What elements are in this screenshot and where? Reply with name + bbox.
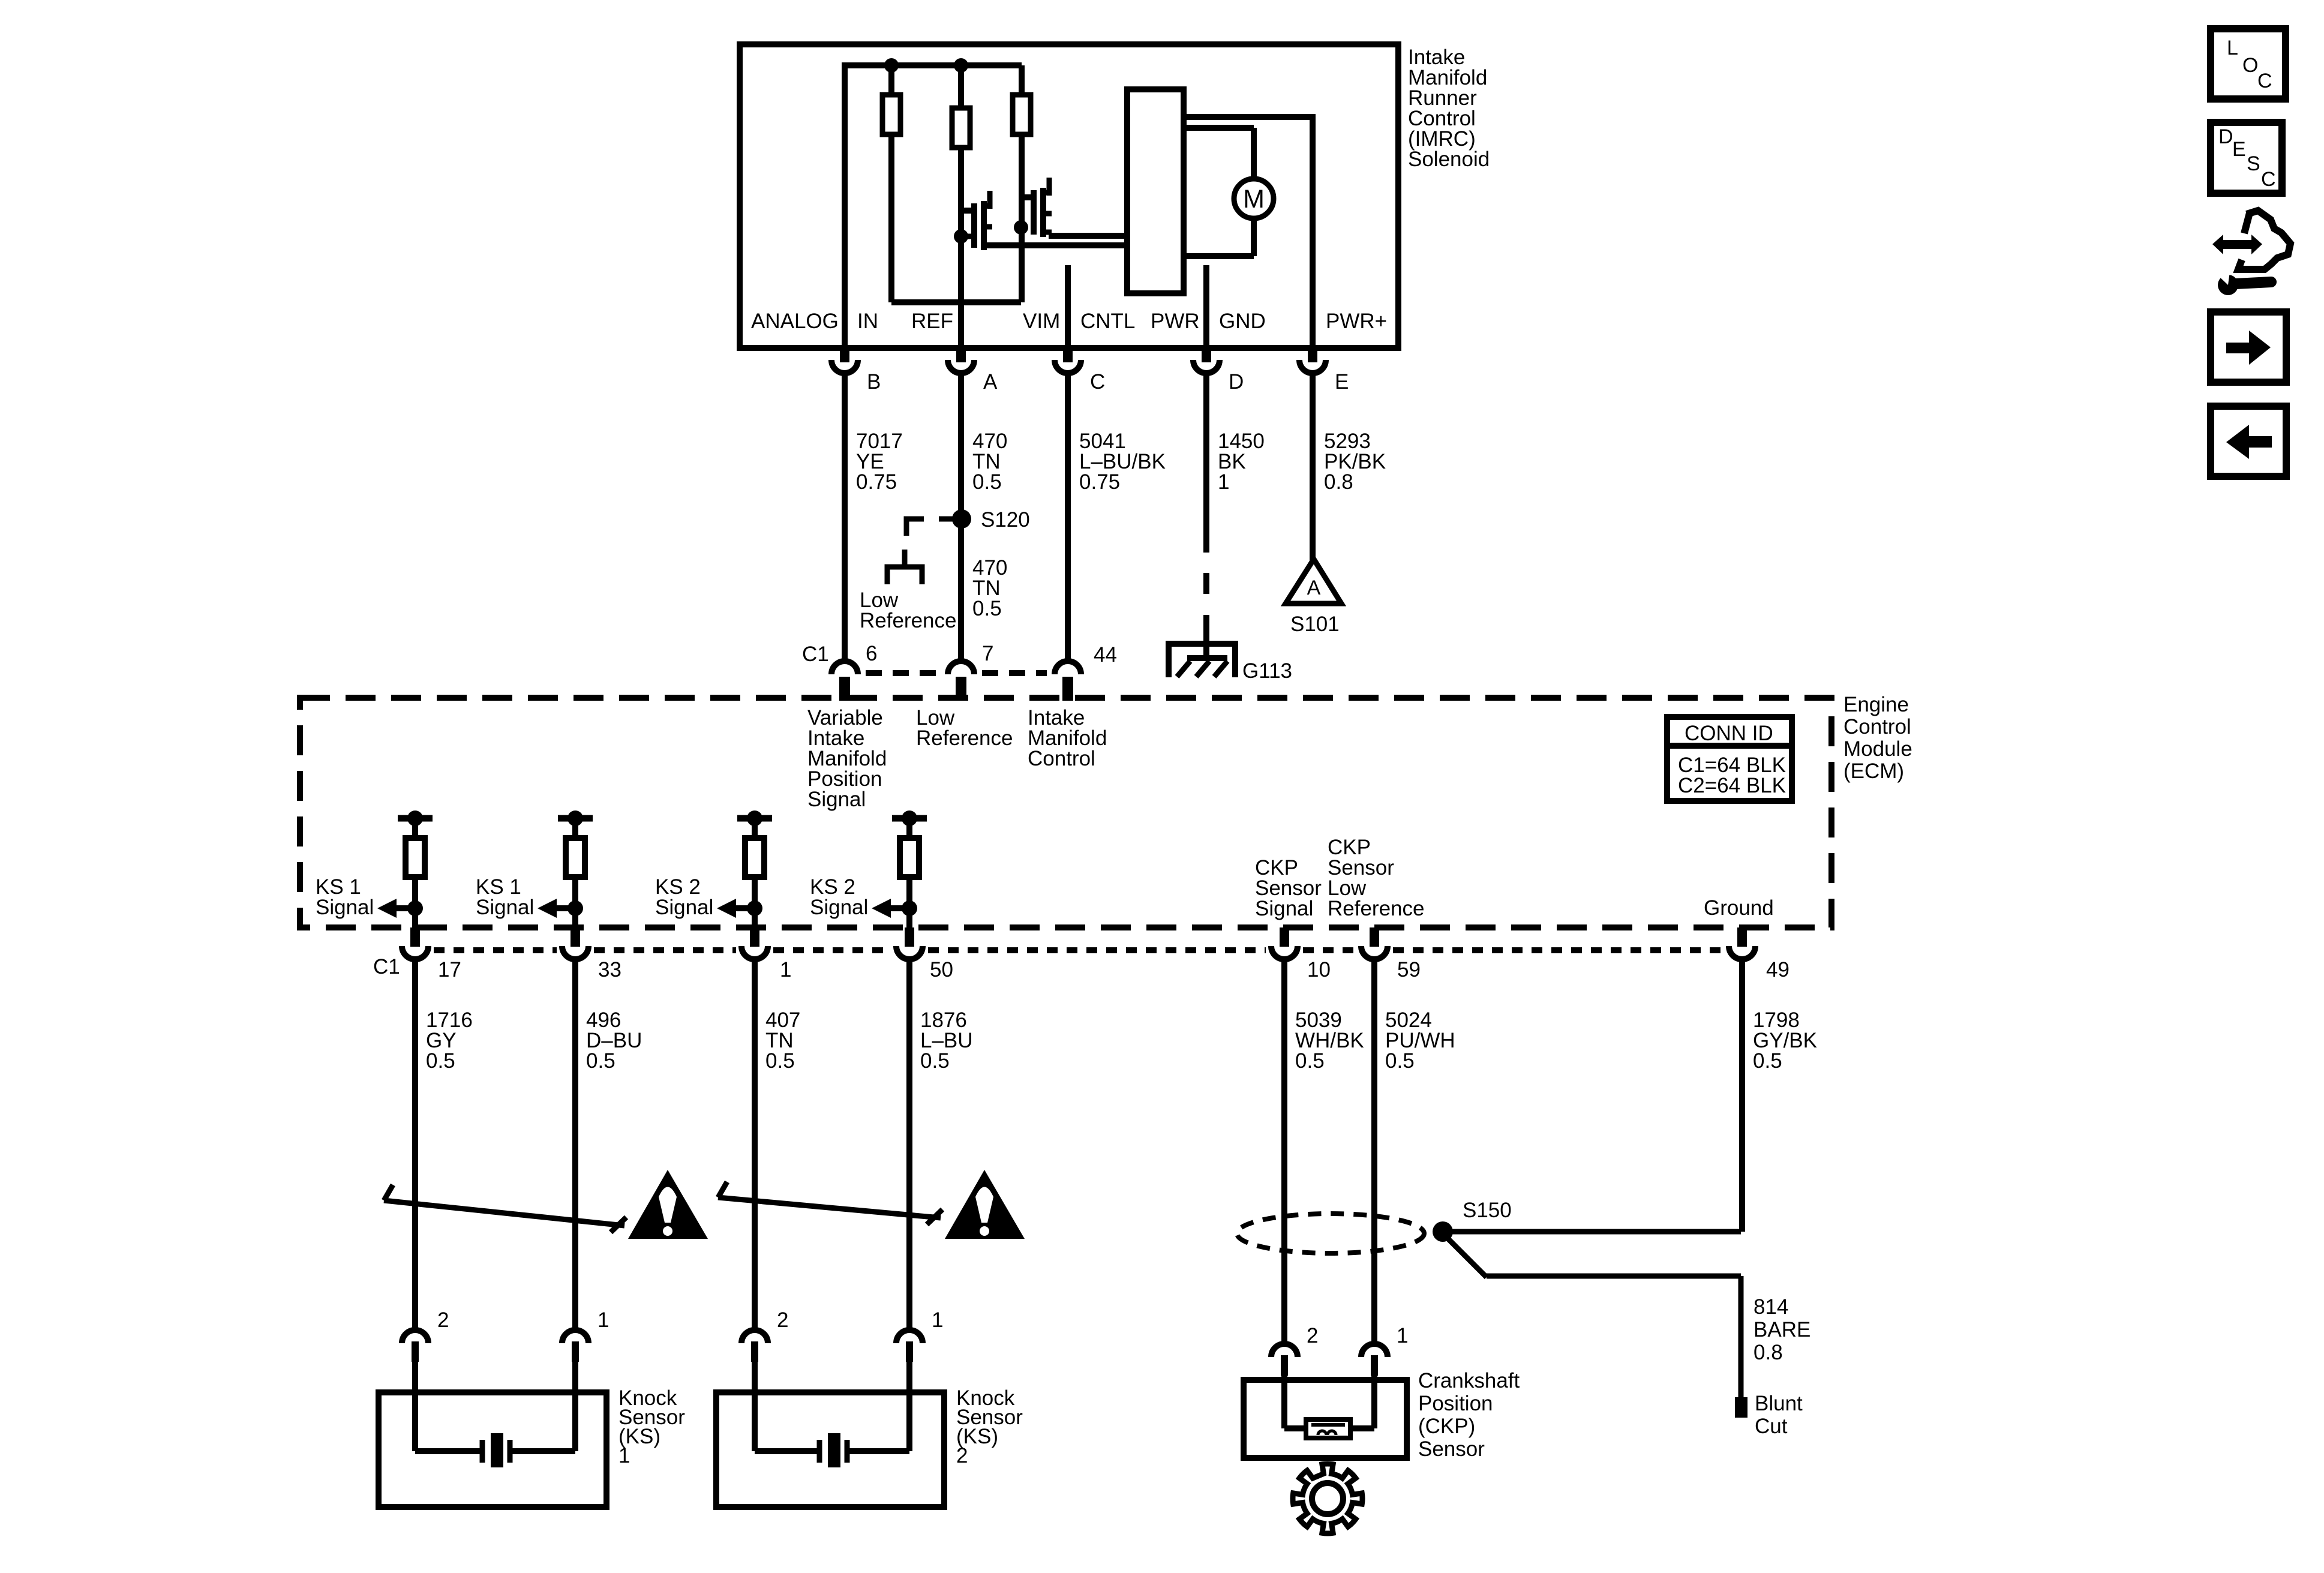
svg-text:50: 50 <box>930 958 953 981</box>
svg-text:814: 814 <box>1753 1295 1788 1319</box>
svg-text:2: 2 <box>1307 1324 1318 1347</box>
svg-text:Crankshaft: Crankshaft <box>1418 1369 1520 1392</box>
svg-text:Engine: Engine <box>1843 693 1909 716</box>
svg-text:C2=64 BLK: C2=64 BLK <box>1678 774 1786 797</box>
svg-text:49: 49 <box>1766 958 1789 981</box>
svg-text:7: 7 <box>982 642 993 665</box>
svg-text:Ground: Ground <box>1704 896 1774 920</box>
svg-text:0.5: 0.5 <box>920 1049 950 1073</box>
svg-text:Signal: Signal <box>810 896 868 919</box>
svg-text:Module: Module <box>1843 737 1912 761</box>
svg-text:2: 2 <box>956 1444 968 1467</box>
svg-text:O: O <box>2242 54 2258 77</box>
svg-text:0.5: 0.5 <box>972 597 1002 620</box>
svg-text:S: S <box>2247 152 2260 175</box>
svg-text:C1: C1 <box>373 955 400 978</box>
svg-text:33: 33 <box>598 958 621 981</box>
svg-text:(CKP): (CKP) <box>1418 1415 1475 1438</box>
svg-text:C: C <box>2257 70 2272 92</box>
svg-text:1: 1 <box>932 1308 943 1332</box>
svg-text:C: C <box>1090 370 1105 394</box>
svg-text:0.8: 0.8 <box>1324 470 1353 494</box>
svg-text:2: 2 <box>437 1308 449 1332</box>
svg-text:Solenoid: Solenoid <box>1408 148 1490 171</box>
svg-text:Signal: Signal <box>316 896 374 919</box>
svg-text:Blunt: Blunt <box>1755 1392 1803 1415</box>
svg-text:Reference: Reference <box>860 609 956 632</box>
svg-text:Sensor: Sensor <box>1418 1437 1485 1461</box>
svg-text:S101: S101 <box>1290 613 1340 636</box>
svg-text:L: L <box>2227 37 2238 59</box>
svg-text:10: 10 <box>1307 958 1331 981</box>
svg-text:ANALOG: ANALOG <box>751 310 839 333</box>
svg-text:0.8: 0.8 <box>1753 1341 1783 1364</box>
svg-text:PWR+: PWR+ <box>1326 310 1387 333</box>
svg-text:M: M <box>1243 185 1265 214</box>
svg-text:B: B <box>867 370 881 394</box>
svg-text:0.75: 0.75 <box>1079 470 1120 494</box>
svg-text:CONN ID: CONN ID <box>1685 722 1773 745</box>
svg-text:S120: S120 <box>981 508 1030 532</box>
svg-text:E: E <box>2232 138 2246 161</box>
svg-text:D: D <box>2218 125 2233 148</box>
svg-text:VIM: VIM <box>1023 310 1060 333</box>
svg-text:C: C <box>2261 168 2276 191</box>
svg-text:0.5: 0.5 <box>426 1049 455 1073</box>
svg-text:E: E <box>1335 370 1349 394</box>
svg-text:A: A <box>983 370 998 394</box>
svg-text:0.5: 0.5 <box>586 1049 615 1073</box>
svg-text:PWR: PWR <box>1151 310 1200 333</box>
svg-text:CNTL: CNTL <box>1080 310 1135 333</box>
svg-text:IN: IN <box>857 310 878 333</box>
svg-text:0.75: 0.75 <box>856 470 897 494</box>
svg-text:Reference: Reference <box>1328 897 1424 920</box>
svg-text:REF: REF <box>911 310 953 333</box>
svg-text:1: 1 <box>618 1444 630 1467</box>
svg-text:Cut: Cut <box>1755 1415 1788 1438</box>
svg-text:Signal: Signal <box>1255 897 1313 920</box>
svg-text:Signal: Signal <box>476 896 534 919</box>
svg-text:0.5: 0.5 <box>765 1049 795 1073</box>
svg-text:59: 59 <box>1397 958 1421 981</box>
svg-text:BARE: BARE <box>1753 1318 1810 1341</box>
svg-text:0.5: 0.5 <box>1753 1049 1782 1073</box>
svg-text:Signal: Signal <box>807 788 866 811</box>
svg-text:1: 1 <box>780 958 791 981</box>
svg-text:G113: G113 <box>1242 659 1292 683</box>
svg-text:44: 44 <box>1094 643 1117 667</box>
svg-text:(ECM): (ECM) <box>1843 760 1904 783</box>
svg-text:Reference: Reference <box>916 727 1013 750</box>
svg-text:6: 6 <box>866 642 877 665</box>
svg-text:Control: Control <box>1843 715 1911 739</box>
svg-text:Position: Position <box>1418 1392 1493 1415</box>
svg-text:1: 1 <box>1218 470 1229 494</box>
svg-text:Control: Control <box>1028 747 1095 770</box>
svg-text:A: A <box>1307 577 1321 599</box>
svg-text:C1: C1 <box>802 643 829 666</box>
svg-text:S150: S150 <box>1463 1199 1512 1222</box>
svg-text:1: 1 <box>1397 1324 1408 1347</box>
svg-text:0.5: 0.5 <box>972 470 1002 494</box>
svg-text:0.5: 0.5 <box>1295 1049 1325 1073</box>
svg-text:D: D <box>1229 370 1244 394</box>
svg-text:1: 1 <box>597 1308 609 1332</box>
svg-text:0.5: 0.5 <box>1385 1049 1415 1073</box>
svg-text:2: 2 <box>777 1308 788 1332</box>
svg-text:17: 17 <box>438 958 461 981</box>
svg-text:GND: GND <box>1219 310 1266 333</box>
svg-text:Signal: Signal <box>655 896 713 919</box>
